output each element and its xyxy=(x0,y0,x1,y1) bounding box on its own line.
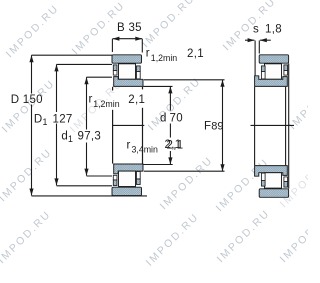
svg-text:r: r xyxy=(127,140,131,152)
inner ring upper half xyxy=(114,77,143,87)
side view inner ring flange lower-left xyxy=(261,173,265,180)
s extension line left (inner ring face) xyxy=(254,41,256,76)
svg-text:B 35: B 35 xyxy=(117,22,142,34)
side view roller lower half xyxy=(265,173,282,188)
F arrowhead top xyxy=(220,80,224,87)
d1 dimension line upper segment xyxy=(86,77,88,129)
outer ring upper half xyxy=(112,55,142,63)
cage bar upper-left xyxy=(113,65,117,71)
B arrowhead left xyxy=(112,37,119,41)
svg-text:70: 70 xyxy=(170,113,183,125)
side view outer ring lower half xyxy=(259,189,288,198)
svg-text:97,3: 97,3 xyxy=(78,130,102,142)
svg-text:s: s xyxy=(253,24,259,36)
d dimension line lower segment xyxy=(169,151,171,164)
side view right face line xyxy=(288,64,290,189)
bore left silhouette segment below r label xyxy=(112,110,114,164)
D arrowhead top xyxy=(29,55,33,62)
B arrowhead right xyxy=(135,37,142,41)
side view inner ring upper half with protruding lip xyxy=(255,76,288,87)
dimension D outer diameter xyxy=(32,55,148,196)
roller lower half xyxy=(119,171,136,186)
svg-text:2,1: 2,1 xyxy=(167,139,184,151)
D arrowhead bottom xyxy=(29,189,33,196)
svg-text:d: d xyxy=(160,113,167,125)
side view cage pocket upper-right xyxy=(284,71,288,76)
d1 arrowhead bottom xyxy=(84,169,88,176)
side view inner ring flange upper-left xyxy=(261,72,265,79)
dimension d bore diameter xyxy=(144,86,173,164)
d arrowhead top xyxy=(168,86,172,93)
main cross-section view of cylindrical roller bearing xyxy=(112,55,143,196)
side view outer ring upper half xyxy=(259,55,288,63)
svg-text:D 150: D 150 xyxy=(11,94,43,106)
dimension F raceway diameter xyxy=(144,80,225,171)
svg-text:3,4min: 3,4min xyxy=(132,145,159,155)
s arrowhead right xyxy=(260,38,267,42)
cage pocket lower-left xyxy=(113,175,117,180)
side view cage bar upper-right xyxy=(284,65,288,71)
bore right silhouette segment below 2,1 label xyxy=(142,108,144,164)
side view inner ring lower half with protruding lip xyxy=(255,166,288,177)
B extension line right xyxy=(141,39,143,53)
s dimension line left segment xyxy=(245,39,254,41)
cage bar lower-right xyxy=(137,179,141,185)
B dimension line xyxy=(112,38,142,40)
svg-text:89: 89 xyxy=(211,120,223,132)
svg-text:1,2min: 1,2min xyxy=(93,99,120,109)
F dimension line xyxy=(222,80,224,171)
outer ring lower half xyxy=(112,187,142,195)
D leader top (outer edge) xyxy=(32,54,113,56)
d dimension line middle segment xyxy=(169,124,171,138)
svg-text:1: 1 xyxy=(43,117,48,127)
svg-text:2,1: 2,1 xyxy=(187,48,204,60)
D1 arrowhead top xyxy=(54,64,58,71)
D1 arrowhead bottom xyxy=(54,178,58,185)
d arrowhead bottom xyxy=(168,157,172,164)
s arrowhead left xyxy=(248,38,255,42)
side view cage bar upper-left xyxy=(261,66,265,72)
D1 dimension line lower segment xyxy=(56,124,58,186)
bore silhouette lines main view xyxy=(112,87,144,164)
svg-text:1,2min: 1,2min xyxy=(151,53,178,63)
F leader bottom (raceway) xyxy=(144,170,225,172)
bore right silhouette segment above 2,1 label xyxy=(142,87,144,90)
side view roller upper half xyxy=(265,64,282,79)
bearing axis line side view xyxy=(251,124,295,126)
B extension line left xyxy=(111,39,113,52)
F arrowhead bottom xyxy=(220,164,224,171)
svg-text:r: r xyxy=(89,94,93,106)
svg-text:r: r xyxy=(146,47,150,59)
side elevation view of bearing xyxy=(255,55,289,198)
d1 dimension line lower segment xyxy=(86,143,88,176)
side view bore chamfer line xyxy=(285,87,287,165)
bore left silhouette segment above r label xyxy=(112,87,114,91)
d leader top (bore edge) xyxy=(144,85,173,87)
side view inner ring left face line xyxy=(254,87,256,165)
d1 leader bottom xyxy=(87,175,113,177)
d1 leader top xyxy=(87,76,113,78)
cage bar lower-left xyxy=(113,180,117,186)
svg-text:1: 1 xyxy=(68,134,73,144)
D dimension line lower segment xyxy=(31,105,33,196)
svg-text:2,1: 2,1 xyxy=(128,94,145,106)
bearing axis line main view xyxy=(112,124,144,126)
inner ring lower half xyxy=(114,164,143,174)
d dimension line upper segment xyxy=(169,86,171,110)
d leader bottom (bore edge) xyxy=(144,164,173,166)
cage pocket upper-left xyxy=(113,71,117,76)
svg-text:1,8: 1,8 xyxy=(265,24,282,36)
inner ring flange lower-right xyxy=(137,172,141,179)
svg-text:127: 127 xyxy=(53,113,73,125)
side view cage bar lower-right xyxy=(284,182,288,188)
dimension d1 flange diameter xyxy=(87,77,113,176)
s dimension line right segment xyxy=(260,39,271,41)
D dimension line upper segment xyxy=(31,55,33,93)
d1 arrowhead top xyxy=(84,77,88,84)
D leader bottom (outer edge) xyxy=(32,195,148,197)
dimension D1 shoulder diameter xyxy=(57,64,113,185)
svg-text:F: F xyxy=(204,120,211,132)
dimension B width xyxy=(112,39,142,53)
roller upper half xyxy=(119,64,136,79)
inner ring flange upper-right xyxy=(137,72,141,79)
side view silhouette lines xyxy=(251,64,295,189)
side view cage bar lower-left xyxy=(261,181,265,187)
cage bar upper-right xyxy=(137,66,141,72)
s extension line right (outer ring face) xyxy=(258,41,260,54)
D1 leader bottom xyxy=(57,185,113,187)
side view cage pocket lower-right xyxy=(284,177,288,182)
dimension s ring offset xyxy=(245,40,271,75)
D1 dimension line upper segment xyxy=(56,64,58,112)
svg-text:D: D xyxy=(34,113,43,125)
D1 leader top xyxy=(57,63,113,65)
F leader top (raceway) xyxy=(144,79,225,81)
